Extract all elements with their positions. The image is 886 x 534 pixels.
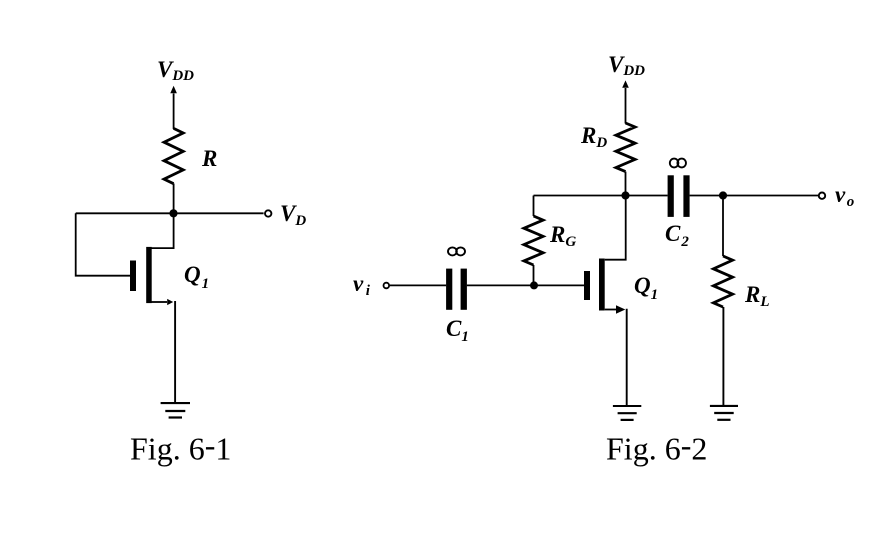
svg-text:Fig. 6-1: Fig. 6-1 — [130, 427, 231, 467]
node gate (fig 6-2) — [530, 281, 538, 289]
node drain (fig 6-1) — [169, 209, 177, 217]
label infinity above C2 — [670, 159, 686, 168]
label infinity above C1 — [448, 247, 465, 255]
wire C1 to gate — [467, 284, 584, 286]
wire RD to drain node (fig 6-2) — [625, 172, 627, 196]
terminal vi open circle — [384, 283, 390, 289]
wire drain horizontal rail (fig 6-1) — [76, 212, 264, 214]
resistor R (fig 6-1) — [164, 128, 183, 183]
svg-text:Fig. 6-2: Fig. 6-2 — [606, 427, 707, 467]
resistor R_G — [524, 196, 543, 286]
wire resistor to node (fig 6-1) — [173, 184, 175, 214]
terminal VD open circle — [265, 210, 271, 216]
ground (fig 6-1) — [161, 403, 190, 417]
power VDD arrow (fig 6-1) — [170, 86, 177, 129]
transistor Q1 (fig 6-2) — [584, 199, 626, 314]
power VDD arrow (fig 6-2) — [622, 80, 629, 123]
wire vi to C1 — [390, 284, 447, 286]
node drain (fig 6-2) — [621, 191, 629, 199]
resistor R_D (fig 6-2) — [616, 123, 635, 172]
svg-text:R: R — [201, 146, 217, 171]
wire C2 to vo node — [690, 195, 723, 197]
resistor R_L — [713, 196, 732, 406]
wire source to ground (fig 6-1) — [174, 301, 176, 403]
capacitor C2 — [668, 175, 690, 217]
ground (below Q1 fig 6-2) — [613, 406, 641, 420]
wire drain rail (fig 6-2) — [534, 195, 668, 197]
wire vo node to terminal — [723, 195, 818, 197]
ground (below R_L) — [710, 406, 738, 420]
node vo (fig 6-2) — [719, 191, 727, 199]
transistor Q1 (fig 6-1) — [130, 217, 174, 305]
wire feedback gate loop (fig 6-1) — [76, 213, 130, 275]
terminal vo open circle — [819, 193, 825, 199]
wire source to ground (fig 6-2) — [626, 309, 628, 406]
capacitor C1 — [446, 269, 467, 310]
